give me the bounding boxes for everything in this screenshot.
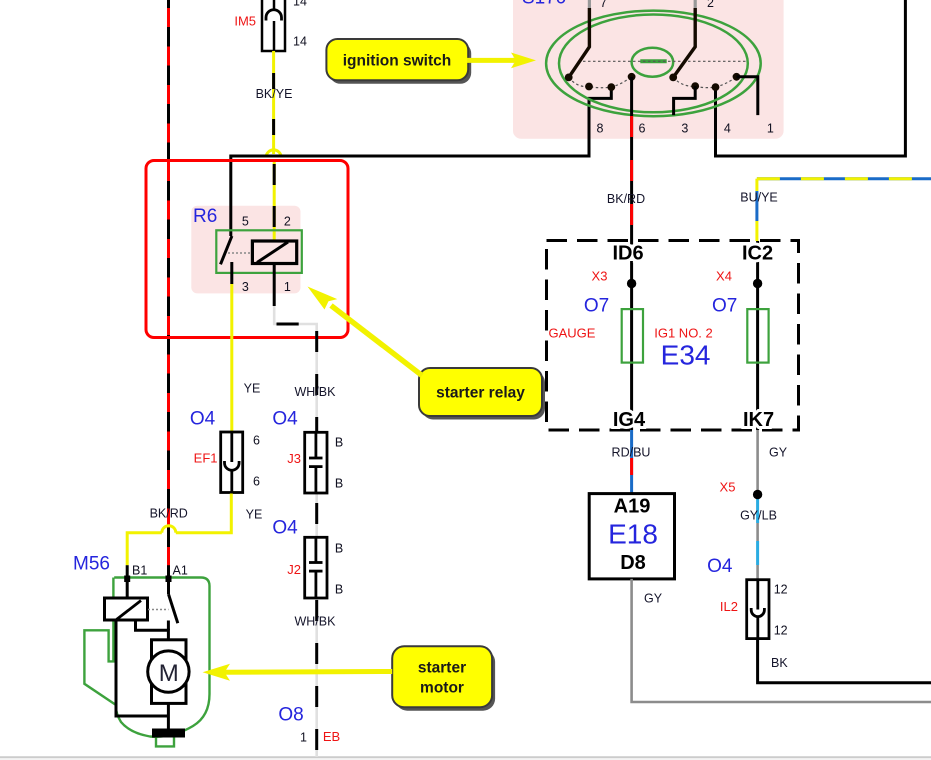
svg-text:E34: E34 xyxy=(661,340,711,371)
svg-text:O4: O4 xyxy=(190,409,216,430)
wire inside E34 left (ID6 to IG4) xyxy=(630,241,633,430)
connector J2 (O4) xyxy=(305,537,327,598)
svg-text:7: 7 xyxy=(600,0,607,10)
svg-text:6: 6 xyxy=(639,122,646,136)
svg-text:starter: starter xyxy=(418,660,466,677)
wire from ignition pin 4 to right feed xyxy=(716,87,906,156)
svg-text:GY/LB: GY/LB xyxy=(740,509,777,523)
wire BK/RD ignition pin 6 to E34 ID6 xyxy=(630,77,633,241)
svg-text:6: 6 xyxy=(253,475,260,489)
wire hop BK/YE over horizontal bus xyxy=(266,150,281,158)
svg-text:B: B xyxy=(335,583,343,597)
svg-text:4: 4 xyxy=(724,122,731,136)
svg-text:BK/YE: BK/YE xyxy=(256,87,293,101)
ignition switch lever pin 7 xyxy=(569,0,590,77)
ignition pin 3 stub xyxy=(674,86,696,115)
svg-text:O4: O4 xyxy=(272,409,298,430)
wire YE relay pin 3 to EF1 xyxy=(230,284,233,431)
svg-text:8: 8 xyxy=(597,122,604,136)
svg-text:12: 12 xyxy=(774,624,788,638)
contact dot pin6 xyxy=(628,73,636,81)
node IG4 xyxy=(608,411,650,428)
starter switch contact stub xyxy=(167,621,170,631)
svg-text:BK/RD: BK/RD xyxy=(150,507,188,521)
svg-text:1: 1 xyxy=(284,280,291,294)
svg-text:YE: YE xyxy=(246,508,263,522)
svg-text:B: B xyxy=(335,477,343,491)
wire GY from D8 to right edge xyxy=(632,579,931,702)
node IK7 xyxy=(738,411,779,428)
relay pin 1 wire black segment xyxy=(273,264,276,307)
starter motor M56 bottom tab green xyxy=(156,738,174,747)
svg-text:BU/YE: BU/YE xyxy=(740,191,778,205)
wire YE from EF1 to starter B1 with hop xyxy=(127,494,231,566)
wire solenoid left to ground bus xyxy=(116,620,168,716)
svg-text:YE: YE xyxy=(244,382,261,396)
svg-text:1: 1 xyxy=(767,122,774,136)
ignition switch S170 shaded background xyxy=(513,0,784,139)
svg-text:1: 1 xyxy=(300,731,307,745)
gauge unit E18 box xyxy=(589,494,674,579)
svg-text:GAUGE: GAUGE xyxy=(549,326,596,341)
contact dot pin3 xyxy=(691,82,699,90)
svg-text:IK7: IK7 xyxy=(743,409,774,431)
svg-text:X5: X5 xyxy=(720,480,736,495)
terminal B1 square xyxy=(124,576,130,583)
svg-text:3: 3 xyxy=(242,280,249,294)
relay green boundary box xyxy=(216,230,301,273)
callout arrow to starter motor xyxy=(203,664,393,681)
svg-text:6: 6 xyxy=(253,434,260,448)
svg-text:IL2: IL2 xyxy=(720,599,738,614)
svg-text:WH/BK: WH/BK xyxy=(295,615,337,629)
svg-text:GY: GY xyxy=(769,446,788,460)
svg-text:J2: J2 xyxy=(287,562,301,577)
wire BK/YE below hop to relay coil pin 2 xyxy=(273,160,276,241)
svg-text:A19: A19 xyxy=(614,496,651,518)
connector IM5 xyxy=(262,0,285,51)
svg-text:14: 14 xyxy=(293,0,307,9)
svg-text:starter relay: starter relay xyxy=(436,385,525,402)
wire solenoid bottom to motor top xyxy=(136,620,169,640)
motor armature rect xyxy=(152,640,187,704)
wire BU/YE vertical to E34 IC2 xyxy=(755,179,758,241)
contact dot pin4 xyxy=(712,83,720,91)
svg-text:B: B xyxy=(335,542,343,556)
svg-text:R6: R6 xyxy=(193,206,217,227)
contact dot pin8b xyxy=(607,83,615,91)
svg-text:O8: O8 xyxy=(278,705,303,726)
svg-text:M: M xyxy=(159,660,179,687)
junction dot X3 xyxy=(627,279,636,288)
relay linkage dotted line xyxy=(228,252,253,254)
wire RD/BU from IG4 to E18 A19 xyxy=(630,430,633,494)
contact dotted arcs right xyxy=(673,77,736,88)
svg-text:O7: O7 xyxy=(584,296,609,317)
svg-text:IG1 NO. 2: IG1 NO. 2 xyxy=(654,326,713,341)
terminal A1 square xyxy=(166,576,172,583)
svg-text:X4: X4 xyxy=(716,269,732,284)
svg-text:12: 12 xyxy=(774,583,788,597)
wire WH/BK from relay pin 1 down to J3/J2/EB xyxy=(274,306,317,757)
fuse GAUGE green rect xyxy=(622,309,643,363)
node ID6 xyxy=(607,245,649,262)
starter motor M56 green outline xyxy=(84,578,209,737)
wire BK/RD left vertical (battery feed to starter A1) xyxy=(167,0,170,578)
wire bus from ignition pin 8 to relay pin 5 xyxy=(231,87,612,236)
wire BK/YE from IM5 to relay pin 2 xyxy=(272,51,275,154)
ground bar xyxy=(152,729,185,738)
ignition switch ellipses xyxy=(546,11,761,117)
wire BU/YE horizontal from right edge xyxy=(757,177,931,180)
svg-text:IM5: IM5 xyxy=(234,14,256,29)
svg-text:O7: O7 xyxy=(712,296,737,317)
wire black B1 lead xyxy=(126,565,129,598)
svg-text:X3: X3 xyxy=(592,269,608,284)
ignition switch lever pin 2 xyxy=(673,0,695,77)
callout arrow to ignition switch xyxy=(467,53,536,69)
svg-text:J3: J3 xyxy=(287,451,301,466)
wire BK from IL2 to right edge xyxy=(758,640,931,683)
svg-text:BK: BK xyxy=(771,656,788,670)
junction dot X4 xyxy=(753,279,762,288)
ignition pin 1 stub xyxy=(737,77,758,115)
svg-text:ignition switch: ignition switch xyxy=(343,53,452,70)
connector IL2 (O4) xyxy=(747,580,769,639)
solenoid linkage dotted xyxy=(148,609,169,611)
connector J3 (O4) xyxy=(305,432,327,493)
contact dot pin7 xyxy=(565,74,573,82)
svg-text:S170: S170 xyxy=(522,0,566,9)
svg-text:WH/BK: WH/BK xyxy=(295,385,337,399)
svg-text:EF1: EF1 xyxy=(194,451,218,466)
svg-text:B1: B1 xyxy=(132,564,147,578)
callout box starter relay xyxy=(419,368,545,420)
svg-text:IG4: IG4 xyxy=(613,409,646,431)
svg-text:motor: motor xyxy=(420,680,464,697)
ignition switch linkage dotted line xyxy=(578,60,746,62)
svg-text:14: 14 xyxy=(293,35,307,49)
contact dot pin1 xyxy=(733,73,741,81)
svg-text:BK/RD: BK/RD xyxy=(607,192,645,206)
wire right vertical feed xyxy=(904,0,907,158)
relay pin 3 stub xyxy=(230,262,233,284)
svg-text:EB: EB xyxy=(323,729,340,744)
motor M circle xyxy=(148,651,189,692)
svg-text:M56: M56 xyxy=(73,554,110,575)
wire GY from IK7 xyxy=(756,430,759,580)
svg-text:IC2: IC2 xyxy=(742,243,773,265)
svg-text:ID6: ID6 xyxy=(612,243,643,265)
svg-text:O4: O4 xyxy=(272,518,298,539)
ignition switch center hub ellipse xyxy=(632,48,674,77)
starter switch blade from A1 xyxy=(169,594,178,623)
solenoid coil box xyxy=(105,598,148,620)
relay coil U1 xyxy=(252,241,296,264)
svg-text:2: 2 xyxy=(707,0,714,10)
junction dot X5 xyxy=(753,490,762,499)
contact dot pin8a xyxy=(585,83,593,91)
bottom window strip xyxy=(0,757,931,760)
svg-text:GY: GY xyxy=(644,592,663,606)
svg-text:D8: D8 xyxy=(620,552,646,574)
callout box starter motor xyxy=(392,646,495,710)
relay switch blade pin5-pin3 xyxy=(221,236,232,264)
svg-text:O4: O4 xyxy=(707,556,733,577)
relay R6 outer red box xyxy=(146,161,348,338)
callout box ignition switch xyxy=(326,39,471,84)
relay R6 shaded background xyxy=(191,206,300,294)
callout arrow to starter relay xyxy=(308,287,423,376)
svg-text:5: 5 xyxy=(242,215,249,229)
contact dotted arcs left xyxy=(569,77,632,88)
svg-text:B: B xyxy=(335,436,343,450)
wire motor bottom to ground bar xyxy=(167,703,170,729)
svg-text:A1: A1 xyxy=(173,564,188,578)
fuse IG1 NO.2 green rect xyxy=(747,309,768,363)
fusebox E34 dashed border xyxy=(547,241,799,431)
svg-text:RD/BU: RD/BU xyxy=(612,446,651,460)
node IC2 xyxy=(737,245,778,262)
svg-text:E18: E18 xyxy=(608,519,658,550)
wire inside E34 right (IC2 to IK7) xyxy=(756,241,759,430)
wire black A1 lead xyxy=(167,565,170,594)
connector EF1 (O4) xyxy=(221,432,243,493)
contact dot pin2 xyxy=(669,74,677,82)
svg-text:3: 3 xyxy=(681,122,688,136)
svg-text:2: 2 xyxy=(284,215,291,229)
